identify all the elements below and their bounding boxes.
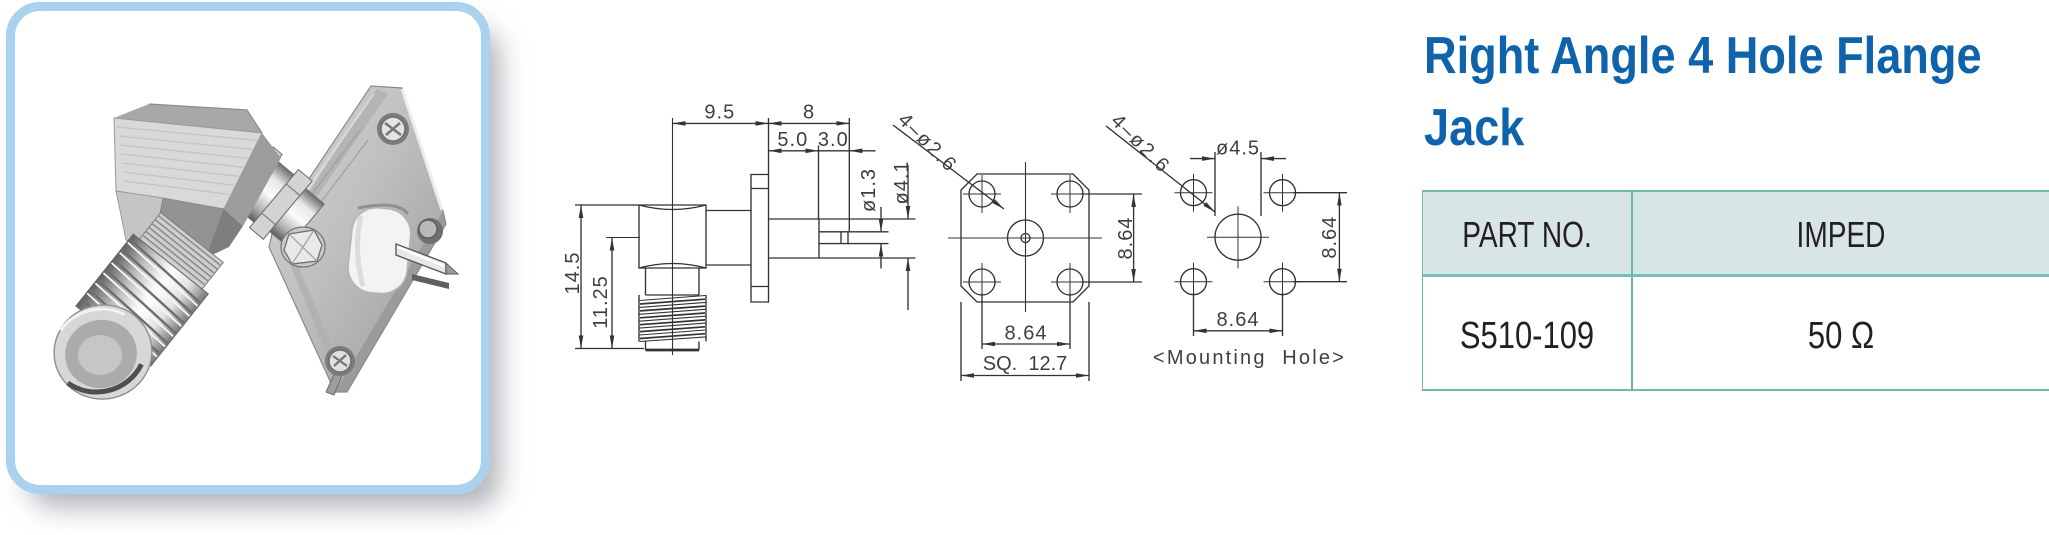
front view center circles	[1008, 220, 1044, 256]
mounting dim 8.64 right	[1293, 193, 1347, 282]
svg-text:11.25: 11.25	[590, 275, 612, 329]
dim 9.5	[673, 122, 769, 124]
mounting hole top-left	[1181, 180, 1207, 206]
front view dim 8.64 bottom	[982, 293, 1070, 349]
tube body to flange	[198, 126, 331, 255]
svg-text:ø1.3: ø1.3	[858, 168, 880, 212]
svg-text:8.64: 8.64	[1217, 309, 1260, 331]
flange hole right	[417, 218, 443, 244]
svg-text:4–ø2.6: 4–ø2.6	[1106, 110, 1174, 178]
svg-text:14.5: 14.5	[562, 252, 584, 295]
svg-text:8.64: 8.64	[1005, 323, 1048, 345]
front view square flange	[961, 174, 1089, 302]
threaded barrel	[76, 234, 208, 366]
flange screw bottom hole	[325, 346, 355, 395]
svg-text:<Mounting Hole>: <Mounting Hole>	[1153, 347, 1346, 369]
dim 3.0	[819, 150, 850, 152]
svg-text:3.0: 3.0	[818, 129, 849, 151]
svg-text:8: 8	[803, 102, 815, 124]
hex nut left flange corner	[281, 227, 325, 267]
body right face	[224, 133, 281, 226]
centerline horiz left	[606, 237, 640, 239]
mounting dim 8.64 bottom	[1194, 293, 1283, 336]
front view hole bottom-right	[1057, 269, 1083, 295]
svg-text:9.5: 9.5	[704, 102, 735, 124]
flange screw top hole	[377, 113, 409, 145]
svg-text:ø4.5: ø4.5	[1216, 138, 1260, 160]
title	[1424, 21, 2032, 164]
front view hole top-left	[969, 181, 995, 207]
svg-text:SQ. 12.7: SQ. 12.7	[983, 353, 1068, 375]
front view hole bottom-left	[969, 269, 995, 295]
svg-text:5.0: 5.0	[777, 129, 808, 151]
mounting hole top-right	[1270, 180, 1296, 206]
side view body	[639, 205, 706, 268]
centerline vertical	[672, 118, 674, 355]
mounting hole bottom-right	[1270, 269, 1296, 295]
white insulator	[346, 205, 414, 296]
mounting dim dia4.5	[1215, 152, 1261, 216]
svg-text:8.64: 8.64	[1115, 217, 1137, 260]
dim 8	[769, 122, 850, 124]
table	[1422, 190, 2049, 276]
front view dim 8.64 right	[1081, 194, 1142, 282]
flange plate	[269, 86, 446, 392]
photo frame box	[6, 2, 490, 494]
side view bottom collar	[646, 342, 700, 351]
svg-text:ø4.1: ø4.1	[891, 160, 913, 204]
svg-text:8.64: 8.64	[1319, 216, 1341, 259]
side view flange plate	[751, 175, 769, 303]
mounting view center hole	[1215, 214, 1261, 260]
side view threads	[639, 295, 706, 342]
front view centerlines	[948, 237, 1102, 239]
dim dia 1.3	[880, 207, 882, 232]
dim 5.0	[769, 150, 819, 152]
dim dia 4.1	[907, 165, 909, 219]
dim 11.25	[611, 238, 613, 349]
center pin	[396, 244, 458, 289]
front view dim SQ 12.7	[961, 302, 1089, 381]
mounting hole bottom-left	[1181, 269, 1207, 295]
front view hole top-right	[1057, 181, 1083, 207]
side view neck	[646, 268, 700, 295]
dim 14.5	[580, 205, 582, 349]
leader 4-dia2.6 front	[893, 125, 1004, 209]
side view pin	[819, 232, 848, 244]
body front-bottom faces	[116, 191, 163, 258]
side view dielectric cylinder	[769, 219, 916, 258]
body block top face	[114, 104, 281, 258]
knurl transition	[76, 208, 230, 366]
leader 4-dia2.6 mounting	[1106, 126, 1215, 212]
side view tube to flange	[706, 211, 751, 266]
barrel end face	[45, 296, 160, 408]
